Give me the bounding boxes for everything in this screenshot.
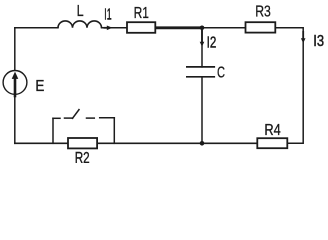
wire R3 to top-right corner and down right side [275,28,303,144]
current arrow I2 [200,30,205,47]
node B junction dot (bottom) [200,141,205,146]
switch S lead dash 1 [53,117,60,119]
node A junction dot (top) [200,26,205,31]
capacitor C bottom plate [186,76,215,78]
wire inductor to R1 [102,27,128,29]
switch S lead dash 2 [100,117,115,119]
svg-text:L: L [77,3,84,20]
svg-text:C: C [217,65,225,82]
resistor R4 [257,138,287,148]
svg-text:R2: R2 [75,150,90,163]
resistor R1 [127,22,155,33]
svg-text:I1: I1 [104,7,111,24]
wire bold R1 to node A [155,26,202,29]
svg-text:R3: R3 [255,3,271,20]
svg-text:I3: I3 [313,33,324,50]
inductor L coil [58,21,102,28]
wire capacitor branch upper (node A down to top plate) [201,28,203,67]
switch S left contact dash [65,117,73,119]
resistor R2 [68,138,97,148]
current arrow I3 [301,31,306,43]
wire top-left horizontal (corner to inductor) [15,27,58,29]
svg-text:I2: I2 [207,35,217,52]
switch S right contact dash [87,117,95,119]
wire bottom rail [15,142,257,144]
capacitor C top plate [186,66,215,68]
wire capacitor branch lower (bottom plate to bottom rail) [201,77,203,143]
svg-text:E: E [35,78,44,95]
svg-text:R1: R1 [134,5,149,22]
wire left vertical (corner down through source to bottom rail) [14,28,16,144]
wire switch branch right vertical [113,118,115,144]
current arrow I1 [104,26,113,31]
resistor R3 [246,22,276,32]
wire node A to R3 [202,27,246,29]
voltage source E circle [3,71,27,95]
svg-text:R4: R4 [264,122,280,139]
switch S open blade [73,110,80,119]
voltage source E emf arrow [12,72,19,98]
wire switch branch left vertical [52,118,54,143]
